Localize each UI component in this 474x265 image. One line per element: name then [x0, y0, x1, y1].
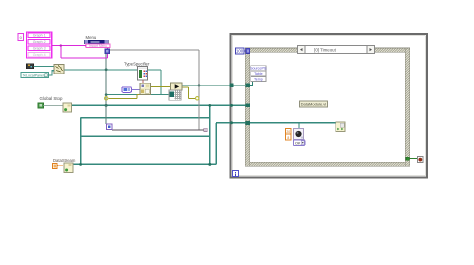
svg-text:SourcePts: SourcePts	[250, 67, 267, 71]
svg-text:Import Menu: Import Menu	[89, 44, 107, 48]
svg-text:Graph 3: Graph 3	[33, 47, 46, 51]
svg-text:Graph 1: Graph 1	[33, 34, 46, 38]
svg-text:Graph 2: Graph 2	[33, 40, 46, 44]
svg-text:OK: OK	[295, 141, 301, 145]
svg-text:%LocalPanel.vi: %LocalPanel.vi	[23, 74, 48, 78]
svg-text:20: 20	[286, 130, 290, 134]
svg-text:Temp: Temp	[254, 77, 263, 81]
svg-text:TypeSpecifier: TypeSpecifier	[124, 61, 150, 66]
svg-text:Table: Table	[254, 72, 263, 76]
svg-text:8: 8	[287, 136, 289, 140]
svg-text:DataModule.vi: DataModule.vi	[301, 102, 327, 107]
svg-text:[0] Timeout: [0] Timeout	[314, 48, 336, 53]
svg-text:Global Stop: Global Stop	[40, 96, 64, 101]
svg-text:Menu: Menu	[86, 35, 97, 40]
svg-text:100: 100	[236, 49, 244, 54]
svg-text:Graph 4: Graph 4	[33, 53, 46, 57]
